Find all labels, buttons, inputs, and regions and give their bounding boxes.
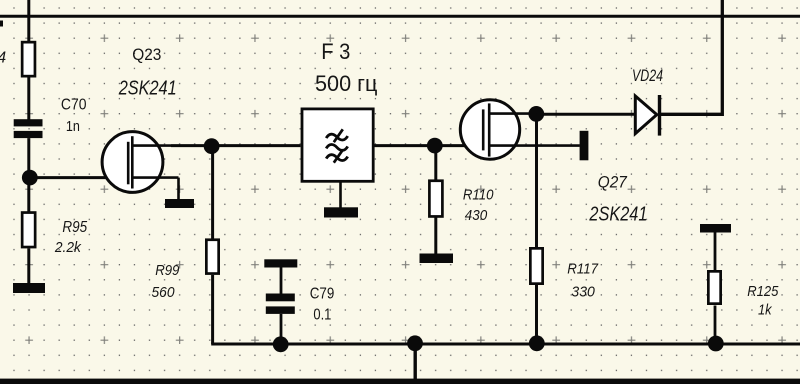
svg-text:2SK241: 2SK241 [118,77,177,99]
node B junction dot (Q23 drain / R99 / F3) [204,138,220,154]
resistor R110 [429,181,442,217]
svg-text:R125: R125 [747,284,779,300]
wire C70 to node A [27,138,30,178]
svg-text:2.2k: 2.2k [54,239,82,256]
svg-text:1k: 1k [758,302,773,319]
ground bar below F3 [324,207,358,217]
capacitor C79 [266,294,295,314]
label VD24 [632,67,663,85]
label Q23 [132,45,161,64]
rail bar above R125 [700,224,731,233]
svg-text:R99: R99 [155,262,180,279]
svg-text:2SK241: 2SK241 [589,204,648,226]
label F3 frequency 500 гц [315,71,378,96]
svg-text:4: 4 [0,50,7,67]
svg-text:430: 430 [465,207,488,224]
wire Q23 source down to ground [177,178,180,200]
ground bar below R110 [420,254,454,264]
wire node C down to R110 [434,146,437,181]
wire R117 down to bottom bus [535,285,538,344]
label R117 value 330 [571,284,595,301]
frame border bottom [0,379,800,384]
label F3 [321,39,350,64]
wire stub down to frame [414,343,417,379]
wire node B down to R99 [211,146,214,239]
wire R94 to C70 [27,78,30,121]
wire F3 bottom stub to ground [339,183,342,209]
resistor R117 [530,248,542,283]
resistor R125 [708,271,720,303]
junction dot R117 / bottom bus [529,335,545,351]
wire rail bar to R125 [714,233,717,272]
svg-text:R117: R117 [567,261,598,278]
wire ground bar to C79 [280,268,283,295]
wire F3 output to Q27 gate [375,144,484,147]
svg-text:Q27: Q27 [598,173,628,191]
diode VD24 [635,95,659,136]
node D junction dot (Q27 drain / R117 / VD24) [528,106,544,122]
label C70 value 1n [66,118,80,135]
label R125 value 1k [758,302,773,319]
svg-text:500 гц: 500 гц [315,71,378,96]
label C79 [310,286,335,303]
junction dot C79 / bottom bus [273,336,289,352]
svg-text:VD24: VD24 [632,67,663,85]
wire R95 to ground [27,248,30,284]
node A junction dot [22,170,38,186]
svg-text:560: 560 [152,284,176,301]
wire R125 down to bottom bus [714,306,717,345]
svg-text:Q23: Q23 [132,45,161,64]
node C junction dot (F3 out / Q27 gate / R110) [427,138,443,154]
filter F3 box [302,109,373,181]
resistor R99 [206,240,218,274]
cropped component mark at left edge [0,21,3,27]
label R99 value 560 [152,284,176,301]
svg-text:0.1: 0.1 [313,307,331,324]
wire C79 down to bottom bus [280,314,283,345]
resistor R95 [22,213,35,248]
wire VD24 cathode to right riser [660,0,723,114]
wire node A down to R95 [27,178,30,212]
ground bar below R95 [13,283,45,293]
wire node D down to R117 [535,114,538,248]
label Q27 [598,173,628,191]
resistor R94 (cropped label "4") [22,42,35,76]
wire left column vertical (top to R94) [27,0,30,42]
label Q23 type 2SK241 [118,77,177,99]
ground bar at Q27 source (vertical) [580,131,589,161]
wire Q23 drain to F3 input [171,144,301,147]
junction dot R125 / bottom bus [708,336,724,352]
transistor Q23 2SK241 [102,132,178,193]
label R94 value fragment "4" [0,50,7,67]
svg-text:1n: 1n [66,118,80,135]
label R117 [567,261,598,278]
label C79 value 0.1 [313,307,331,324]
junction dot bottom bus / frame stub [407,335,423,351]
transistor Q27 2SK241 [460,100,580,159]
svg-text:330: 330 [571,284,595,301]
svg-text:R110: R110 [463,187,494,204]
label R110 [463,187,494,204]
label R110 value 430 [465,207,488,224]
ground bar above C79 [264,259,297,267]
svg-text:R95: R95 [62,219,87,236]
svg-text:F 3: F 3 [321,39,350,64]
wire bottom horizontal bus [211,343,800,346]
wire R110 to ground [434,217,437,254]
label R95 value 2.2k [54,239,82,256]
label R99 [155,262,180,279]
wire R99 down to bottom bus corner [211,275,214,344]
svg-text:C70: C70 [61,97,87,114]
label C70 [61,97,87,114]
capacitor C70 [14,119,43,138]
wire node D to diode VD24 [536,113,634,116]
svg-text:C79: C79 [310,286,335,303]
ground bar at Q23 source [165,199,194,208]
wire top horizontal bus [0,15,800,18]
label R125 [747,284,779,300]
label Q27 type 2SK241 [589,204,648,226]
wire node A to Q23 gate [30,176,128,179]
label R95 [62,219,87,236]
